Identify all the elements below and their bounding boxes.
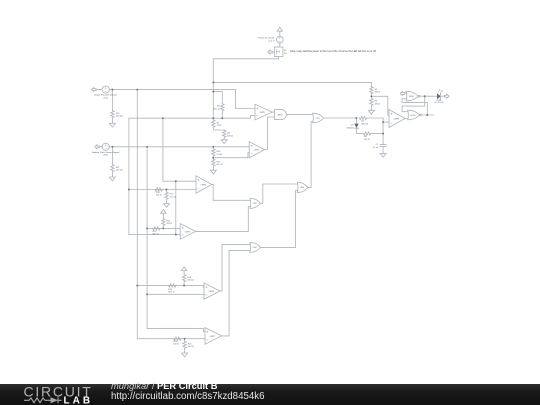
svg-text:OR3: OR3 <box>300 187 304 189</box>
svg-text:182 Ω: 182 Ω <box>375 103 381 105</box>
svg-text:68.1 Ω: 68.1 Ω <box>213 108 220 110</box>
svg-text:OR1: OR1 <box>316 118 320 120</box>
svg-text:(V1): (V1) <box>104 97 108 99</box>
svg-text:R16: R16 <box>217 151 222 153</box>
svg-text:CMP6: CMP6 <box>209 291 215 293</box>
svg-text:(TL-4974): (TL-4974) <box>435 102 444 104</box>
svg-text:5 V: 5 V <box>284 53 288 55</box>
svg-text:56.2 Ω: 56.2 Ω <box>188 346 195 348</box>
svg-text:CMP3: CMP3 <box>201 184 207 186</box>
svg-text:51 kΩ: 51 kΩ <box>217 154 223 156</box>
svg-text:C1: C1 <box>376 144 380 146</box>
svg-text:182 Ω: 182 Ω <box>375 92 381 94</box>
svg-text:47 nF: 47 nF <box>373 147 379 149</box>
svg-text:56.2 Ω: 56.2 Ω <box>170 196 177 198</box>
svg-text:+2.1 V: +2.1 V <box>268 40 275 42</box>
svg-text:Note: relay switches power to: Note: relay switches power to the rest o… <box>290 50 377 53</box>
svg-text:R6: R6 <box>375 101 379 103</box>
svg-text:Power for Circuit: Power for Circuit <box>258 37 275 40</box>
svg-text:LAB: LAB <box>64 395 94 405</box>
svg-text:CMP5: CMP5 <box>185 231 191 233</box>
svg-text:182 Ω: 182 Ω <box>166 223 172 225</box>
svg-text:Brake Pressure Sensor: Brake Pressure Sensor <box>94 94 117 97</box>
svg-text:100 kΩ: 100 kΩ <box>116 116 123 118</box>
svg-text:D1: D1 <box>351 125 355 127</box>
svg-text:OR4: OR4 <box>253 247 257 249</box>
svg-text:CMP4: CMP4 <box>394 118 400 120</box>
svg-text:1N4148: 1N4148 <box>346 127 354 129</box>
svg-text:CMP2: CMP2 <box>254 150 260 152</box>
svg-text:R17: R17 <box>217 161 222 163</box>
svg-text:68.1 Ω: 68.1 Ω <box>217 164 224 166</box>
svg-text:CMP1: CMP1 <box>260 112 266 114</box>
svg-text:CMP7: CMP7 <box>210 336 216 338</box>
svg-text:OR2: OR2 <box>253 203 257 205</box>
svg-text:182 Ω: 182 Ω <box>156 194 162 196</box>
svg-text:15 Ω: 15 Ω <box>217 125 222 127</box>
svg-text:R2: R2 <box>217 122 221 124</box>
svg-text:182 Ω: 182 Ω <box>364 139 370 141</box>
svg-text:680 kΩ: 680 kΩ <box>362 123 369 125</box>
svg-text:(V2): (V2) <box>104 155 108 157</box>
svg-text:100 kΩ: 100 kΩ <box>187 280 194 282</box>
svg-text:R4: R4 <box>227 133 231 135</box>
svg-text:68.1 Ω: 68.1 Ω <box>153 233 160 235</box>
svg-text:NOR2: NOR2 <box>410 115 415 117</box>
svg-text:100 kΩ: 100 kΩ <box>116 170 123 172</box>
svg-text:R5: R5 <box>375 89 379 91</box>
svg-text:182 Ω: 182 Ω <box>227 135 233 137</box>
svg-text:68.1 Ω: 68.1 Ω <box>168 292 175 294</box>
svg-text:AND2: AND2 <box>278 113 283 116</box>
svg-text:R10: R10 <box>116 113 121 115</box>
svg-text:S1: S1 <box>284 50 287 52</box>
svg-text:182 Ω: 182 Ω <box>173 344 179 346</box>
svg-text:R11: R11 <box>116 167 121 169</box>
svg-text:Battery Pack Current Signal: Battery Pack Current Signal <box>92 151 120 154</box>
svg-text:NOR1: NOR1 <box>409 96 414 98</box>
